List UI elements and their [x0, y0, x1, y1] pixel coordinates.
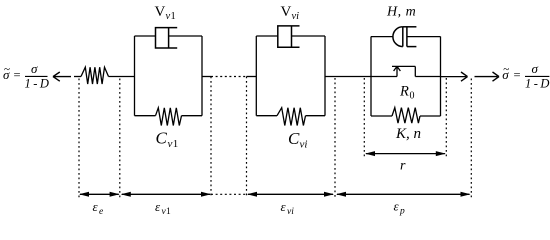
svg-text:C: C: [156, 129, 168, 148]
friction element rod: [407, 36, 441, 38]
guide line epsilon-e / epsilon-v1 boundary: [119, 79, 121, 198]
guide line epsilon-vi / epsilon-p boundary: [334, 78, 336, 198]
wire: Kelvin 2 to plastic element: [325, 76, 371, 78]
svg-text:1: 1: [173, 138, 179, 150]
svg-text:K, n: K, n: [395, 126, 421, 142]
Kelvin element 2 left vertical: [255, 36, 257, 116]
wire: mid axis into step: [371, 76, 397, 78]
label epsilon-v1: [155, 199, 171, 217]
wire: spring Cv1 to right vertical: [182, 115, 203, 117]
label epsilon-p: [394, 199, 406, 217]
dimension epsilon-p arrowheads: [336, 192, 346, 197]
label Vv1: [155, 4, 176, 22]
dashpot Vvi piston: [291, 26, 293, 47]
wire: stub right of Kelvin 1: [202, 76, 211, 78]
svg-text:vi: vi: [292, 11, 300, 22]
Kelvin element 2 right vertical: [324, 36, 326, 116]
svg-text:~: ~: [4, 64, 10, 76]
yield step ledge: [392, 65, 415, 67]
dimension r right arrowhead: [436, 151, 446, 156]
left fraction bar: [25, 75, 48, 77]
wire: spring to Kelvin element 1: [109, 76, 135, 78]
svg-text:ε: ε: [394, 199, 400, 214]
svg-text:H, m: H, m: [386, 5, 416, 20]
wire: left lead into elastic spring: [74, 76, 81, 78]
svg-text:V: V: [281, 4, 292, 20]
Kelvin element 1 left vertical: [134, 36, 136, 116]
svg-text:1: 1: [171, 11, 176, 22]
label R0: [399, 84, 415, 102]
right axis arrowhead: [461, 72, 468, 81]
wire: spring K to right vertical: [420, 115, 441, 117]
wire: stub left of Kelvin 2: [247, 76, 257, 78]
svg-text:ε: ε: [281, 199, 287, 214]
yield step riser with up arrow R0: [394, 66, 401, 76]
svg-text:vi: vi: [287, 207, 294, 217]
friction element cup chord: [402, 27, 404, 47]
label epsilon-vi: [281, 199, 295, 217]
right fraction bar: [525, 75, 549, 77]
label Cvi: [288, 129, 307, 151]
guide line r right: [445, 78, 447, 157]
guide line right of Kelvin 1: [210, 77, 212, 198]
svg-text:r: r: [400, 159, 406, 174]
plastic element left vertical: [370, 37, 372, 117]
svg-text:1 - D: 1 - D: [525, 77, 549, 91]
svg-text:V: V: [155, 4, 166, 20]
wire: step to right vertical: [415, 76, 440, 78]
plastic element right vertical: [440, 37, 442, 117]
dashpot Vvi cylinder: [278, 26, 300, 47]
dimension r left arrowhead: [365, 151, 375, 156]
dashpot Vv1 piston: [168, 28, 170, 48]
wire: top lead to friction cup: [371, 36, 393, 38]
svg-text:~: ~: [503, 64, 509, 76]
spring Cv1: [156, 108, 182, 126]
dotted dimension continuation: [211, 193, 247, 195]
svg-text:σ: σ: [31, 61, 38, 76]
friction element piston plate: [406, 27, 408, 47]
dashpot Vv1 rod: [169, 35, 202, 37]
dimension epsilon-e arrowheads: [79, 192, 89, 197]
wire: spring Cvi to right vertical: [306, 115, 326, 117]
wire: bottom branch lead Kelvin 2: [256, 115, 277, 117]
elastic spring Ee: [81, 67, 109, 84]
spring K hardening: [392, 108, 420, 124]
dimension epsilon-p line: [337, 193, 470, 195]
svg-text:1: 1: [166, 207, 171, 217]
dotted axis continuation: [211, 76, 247, 78]
right force arrow: [475, 72, 500, 81]
dimension epsilon-v1 line: [122, 193, 210, 195]
wire: bottom lead to spring K: [371, 115, 392, 117]
friction element bottom flange: [407, 46, 417, 48]
guide line r left: [363, 78, 365, 157]
dimension epsilon-vi line: [248, 193, 333, 195]
friction element top flange: [403, 26, 417, 28]
Kelvin element 1 right vertical: [201, 36, 203, 116]
friction element cup arc: [393, 27, 403, 47]
dimension epsilon-v1 arrowheads: [121, 192, 131, 197]
wire: top branch lead Kelvin 2: [256, 35, 278, 37]
svg-text:=: =: [14, 68, 21, 82]
svg-text:0: 0: [410, 91, 415, 102]
wire: bottom branch lead Kelvin 1: [135, 115, 156, 117]
svg-text:vi: vi: [300, 139, 308, 151]
spring Cvi: [277, 108, 306, 126]
svg-text:=: =: [514, 68, 521, 82]
svg-text:C: C: [288, 129, 300, 148]
label epsilon-e: [93, 199, 104, 217]
right stress formula sigma-tilde = sigma/(1-D): [502, 61, 549, 91]
wire: top branch lead Kelvin 1: [135, 35, 156, 37]
left force arrow: [53, 72, 71, 81]
svg-text:v: v: [168, 138, 173, 150]
left stress formula sigma-tilde = sigma/(1-D): [3, 61, 49, 91]
guide line epsilon-p right: [470, 79, 472, 198]
svg-text:R: R: [399, 84, 409, 100]
dashpot Vvi rod: [292, 35, 326, 37]
svg-text:p: p: [399, 207, 405, 217]
svg-text:1 - D: 1 - D: [25, 77, 49, 91]
yield step drop: [414, 66, 416, 76]
svg-text:ε: ε: [93, 199, 99, 214]
dimension r line: [366, 153, 445, 155]
svg-text:ε: ε: [155, 199, 161, 214]
dimension epsilon-e line: [80, 193, 119, 195]
guide line epsilon-e left: [78, 79, 80, 198]
svg-text:σ: σ: [532, 61, 539, 76]
guide line left of Kelvin 2: [246, 77, 248, 198]
label Vvi: [281, 4, 300, 22]
label Cv1: [156, 129, 179, 151]
svg-text:e: e: [99, 207, 103, 217]
dashpot Vv1 cylinder: [156, 28, 178, 48]
dimension epsilon-vi arrowheads: [247, 192, 257, 197]
wire: plastic element to right arrow: [441, 76, 467, 78]
